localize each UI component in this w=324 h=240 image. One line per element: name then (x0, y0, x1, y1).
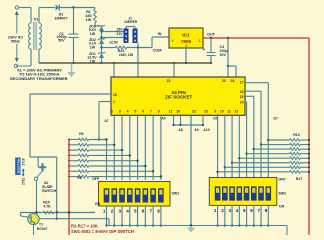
svg-text:10: 10 (220, 110, 224, 114)
svg-text:1: 1 (214, 208, 217, 213)
svg-text:15: 15 (240, 95, 244, 99)
svg-text:A9: A9 (194, 128, 198, 132)
svg-text:6: 6 (142, 110, 144, 114)
svg-text:5: 5 (243, 208, 246, 213)
svg-text:X1: X1 (34, 17, 40, 22)
svg-text:IN: IN (158, 32, 162, 36)
svg-text:COM: COM (153, 49, 162, 53)
svg-text:1: 1 (103, 208, 106, 213)
svg-text:2: 2 (221, 208, 224, 213)
svg-text:SW1: SW1 (172, 192, 180, 196)
svg-text:A8: A8 (178, 128, 182, 132)
svg-text:OFF: OFF (278, 177, 286, 181)
svg-text:50V: 50V (58, 39, 65, 43)
svg-text:25V: 25V (116, 28, 123, 32)
svg-text:18: 18 (113, 93, 117, 97)
svg-text:3: 3 (118, 208, 121, 213)
svg-text:50Hz: 50Hz (11, 39, 20, 43)
svg-text:A7: A7 (104, 119, 108, 123)
svg-text:16V: 16V (220, 53, 227, 57)
svg-text:6: 6 (142, 208, 145, 213)
svg-text:R17: R17 (296, 177, 303, 181)
svg-text:ZIF SOCKET: ZIF SOCKET (165, 95, 193, 100)
svg-text:20: 20 (222, 79, 226, 83)
svg-text:23: 23 (204, 110, 208, 114)
svg-text:16: 16 (176, 110, 180, 114)
svg-text:4.7K: 4.7K (43, 205, 51, 209)
svg-text:2: 2 (186, 44, 188, 48)
svg-text:2716: 2716 (22, 158, 26, 165)
svg-text:OUT: OUT (207, 33, 216, 37)
svg-text:8: 8 (265, 208, 268, 213)
svg-text:24: 24 (231, 79, 235, 83)
svg-text:10Ω, 1W: 10Ω, 1W (119, 53, 134, 57)
svg-text:12.5V: 12.5V (109, 41, 119, 45)
svg-text:SECONDARY TRANSFORMER: SECONDARY TRANSFORMER (10, 76, 68, 81)
svg-text:SELECTION: SELECTION (16, 159, 20, 174)
svg-text:ON: ON (95, 202, 101, 206)
svg-text:2732: 2732 (22, 178, 26, 185)
svg-text:22: 22 (192, 110, 196, 114)
svg-text:1W: 1W (90, 45, 96, 49)
svg-text:BC547: BC547 (37, 227, 48, 231)
svg-text:2: 2 (111, 208, 114, 213)
svg-text:R10: R10 (293, 133, 300, 137)
svg-text:1W: 1W (90, 32, 96, 36)
svg-text:7: 7 (150, 208, 153, 213)
svg-text:1N4007: 1N4007 (54, 17, 67, 21)
svg-text:9: 9 (214, 110, 216, 114)
svg-text:6: 6 (250, 208, 253, 213)
svg-text:4: 4 (126, 208, 129, 213)
svg-text:JUMPER: JUMPER (124, 20, 138, 24)
svg-text:1: 1 (172, 39, 174, 43)
svg-text:1: 1 (113, 100, 115, 104)
svg-text:14: 14 (240, 101, 244, 105)
svg-text:17: 17 (240, 80, 244, 84)
svg-text:16: 16 (240, 90, 244, 94)
svg-text:8: 8 (158, 110, 160, 114)
svg-text:8: 8 (157, 208, 160, 213)
svg-text:13: 13 (234, 110, 238, 114)
svg-text:5: 5 (134, 110, 136, 114)
svg-text:4: 4 (127, 110, 129, 114)
svg-text:SWITCH: SWITCH (42, 189, 57, 193)
svg-text:A10: A10 (203, 128, 209, 132)
svg-text:12: 12 (169, 110, 173, 114)
svg-text:1W: 1W (86, 18, 92, 22)
svg-text:+: + (203, 47, 206, 52)
svg-text:OFF: OFF (92, 177, 100, 181)
svg-text:2: 2 (111, 110, 113, 114)
svg-text:3: 3 (228, 208, 231, 213)
svg-text:A0: A0 (161, 117, 165, 121)
svg-text:ON: ON (279, 205, 285, 209)
svg-text:SW1-SW2 = 8-WAY DIP SWITCH: SW1-SW2 = 8-WAY DIP SWITCH (71, 229, 134, 234)
svg-text:5: 5 (134, 208, 137, 213)
svg-text:4: 4 (236, 208, 239, 213)
svg-text:7: 7 (257, 208, 260, 213)
svg-text:21V: 21V (116, 32, 123, 36)
svg-text:21: 21 (167, 79, 171, 83)
svg-text:R2: R2 (79, 132, 84, 136)
svg-text:3: 3 (119, 110, 121, 114)
svg-text:R9: R9 (77, 176, 82, 180)
svg-text:D7: D7 (274, 117, 278, 121)
svg-text:11: 11 (227, 110, 231, 114)
svg-text:IC1: IC1 (182, 33, 190, 38)
svg-text:SW2: SW2 (278, 191, 286, 195)
svg-text:R2-R17 = 10K: R2-R17 = 10K (71, 224, 98, 229)
svg-text:7: 7 (150, 110, 152, 114)
svg-text:3: 3 (199, 39, 201, 43)
